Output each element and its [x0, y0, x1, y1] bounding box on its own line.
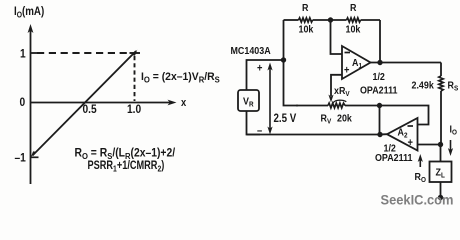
- graph y-axis: [28, 24, 34, 184]
- svg-text:R: R: [302, 2, 308, 14]
- wire node down to ZL: [440, 145, 442, 162]
- node terminal dot: [438, 195, 443, 200]
- leader arc under xRV label: [333, 100, 346, 103]
- svg-text:MC1403A: MC1403A: [231, 45, 271, 57]
- resistor R1 10k: [299, 18, 313, 22]
- svg-text:10k: 10k: [299, 24, 314, 36]
- svg-text:x: x: [181, 97, 186, 109]
- node VR plus junction: [281, 57, 286, 62]
- node A1 output junction: [377, 60, 382, 65]
- wire RV node down to bottom rail: [379, 106, 381, 135]
- svg-text:0: 0: [20, 96, 26, 109]
- svg-text:2.49k: 2.49k: [412, 80, 435, 92]
- node output junction: [438, 142, 443, 147]
- wire top rail left segment: [284, 19, 299, 21]
- svg-text:IO = (2x–1)VR/RS: IO = (2x–1)VR/RS: [141, 70, 220, 84]
- svg-text:20k: 20k: [337, 113, 352, 125]
- wire ZL bottom lead: [440, 182, 442, 197]
- arrow I_O down: [448, 140, 453, 156]
- wire plus rail to VR: [247, 60, 284, 90]
- wire feedback vertical to A1 output: [379, 20, 381, 64]
- wire A1 output: [371, 62, 442, 64]
- op-amp A2 (pointing left): [387, 118, 418, 151]
- potentiometer RV 20k zigzag: [328, 103, 345, 108]
- svg-text:0.5: 0.5: [83, 103, 97, 116]
- svg-text:+: +: [257, 63, 262, 75]
- node junction between R1 and R2: [328, 17, 333, 22]
- svg-text:+: +: [408, 137, 413, 149]
- op-amp A1: [342, 46, 371, 79]
- arrow R_O up: [418, 154, 423, 167]
- wire bottom rail: [247, 134, 381, 136]
- node A2 output junction: [377, 132, 382, 137]
- wire top rail down to VR plus node: [283, 20, 285, 60]
- resistor RS 2.49k vertical: [439, 63, 443, 145]
- wire RV rail left of zigzag: [296, 105, 328, 107]
- wire VR plus node down to RV rail: [284, 60, 299, 106]
- svg-text:1: 1: [20, 48, 26, 61]
- voltage reference VR box: [238, 90, 259, 111]
- y tick at 1: [31, 52, 38, 54]
- wire top rail right segment: [361, 19, 380, 21]
- svg-text:SeekIC.com: SeekIC.com: [381, 192, 454, 207]
- svg-text:10k: 10k: [346, 24, 361, 36]
- 2.5V annotation double arrow: [267, 63, 272, 135]
- resistor R2 10k: [347, 18, 361, 22]
- graph x-axis: [31, 100, 177, 106]
- wire A2 output to node: [380, 133, 387, 135]
- dashed level line y=1: [37, 52, 130, 54]
- wire top rail middle segment: [313, 19, 347, 21]
- wire A2 noninverting input to output node: [418, 144, 442, 146]
- svg-text:2.5 V: 2.5 V: [274, 112, 298, 125]
- svg-text:RO = RS/(LR(2x–1)+2/: RO = RS/(LR(2x–1)+2/: [75, 147, 176, 161]
- wire from R1-R2 node down to A1 inverting input: [331, 20, 343, 54]
- tick at top of diagonal: [130, 52, 141, 54]
- node RV rail junction: [377, 103, 382, 108]
- load ZL box: [430, 162, 452, 183]
- svg-text:R: R: [350, 2, 356, 14]
- wire RV rail right of zigzag: [345, 106, 429, 125]
- dashed vertical at x=1.0: [134, 56, 136, 101]
- svg-text:–: –: [257, 125, 262, 137]
- wiper arrow onto RV: [328, 95, 333, 103]
- svg-text:OPA2111: OPA2111: [375, 152, 413, 164]
- wire VR bottom lead: [247, 111, 261, 135]
- svg-text:1/2: 1/2: [373, 71, 386, 83]
- svg-text:OPA2111: OPA2111: [360, 85, 398, 97]
- transfer function diagonal: [31, 50, 138, 158]
- svg-text:1.0: 1.0: [127, 103, 141, 116]
- svg-text:–1: –1: [15, 152, 26, 165]
- svg-text:+: +: [344, 65, 349, 77]
- svg-text:PSRR1+1/CMRR2): PSRR1+1/CMRR2): [88, 160, 165, 174]
- wire A1 noninverting input to wiper: [331, 75, 342, 96]
